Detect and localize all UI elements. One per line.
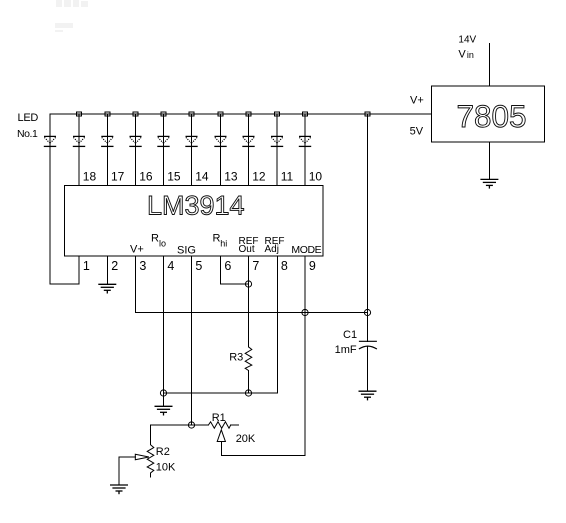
svg-text:in: in xyxy=(467,50,474,60)
junction circle: V+ bus / C1 column xyxy=(364,309,370,315)
svg-text:Adj: Adj xyxy=(265,244,279,255)
wire: R2 top lead xyxy=(150,425,152,445)
R1 wiper arrow xyxy=(217,430,225,442)
junction square: bus / D10 anode xyxy=(303,112,308,116)
junction square: bus / D3 anode xyxy=(105,112,110,116)
svg-text:1: 1 xyxy=(83,259,90,273)
resistor R1 zigzag xyxy=(208,422,230,428)
svg-text:2: 2 xyxy=(111,259,118,273)
R2 wiper arrow xyxy=(135,454,149,460)
faint watermark remnant top-left xyxy=(55,0,88,32)
LED D8 xyxy=(242,136,254,146)
resistor R3 zigzag xyxy=(245,347,252,371)
svg-text:5: 5 xyxy=(195,259,202,273)
wire: pin 5 down to R1/R2 node xyxy=(191,256,193,425)
ground (C1) xyxy=(359,391,377,400)
svg-text:R1: R1 xyxy=(212,412,226,424)
junction square: bus / D5 anode xyxy=(161,112,166,116)
wire: R3 bottom lead xyxy=(248,371,250,394)
svg-text:1mF: 1mF xyxy=(335,344,357,356)
ground (R2 wiper) xyxy=(110,485,128,494)
svg-text:V+: V+ xyxy=(410,94,424,106)
LED D5 xyxy=(157,136,169,146)
svg-text:12: 12 xyxy=(252,170,266,184)
wire: R1 wiper return xyxy=(221,442,305,456)
svg-text:R3: R3 xyxy=(229,352,243,364)
svg-text:R2: R2 xyxy=(156,446,170,458)
svg-text:3: 3 xyxy=(139,259,146,273)
svg-text:10K: 10K xyxy=(156,462,176,474)
wire: lower V+ bus xyxy=(136,312,368,314)
LED D1 (LED No.1) xyxy=(44,136,56,146)
junction square: bus / D9 anode xyxy=(275,112,280,116)
IC U1 LM3914 box xyxy=(65,185,324,256)
wire: pin 8 down to ground bus xyxy=(277,256,279,393)
svg-text:18: 18 xyxy=(83,170,97,184)
svg-text:7805: 7805 xyxy=(457,98,527,134)
junction circle: R3 bottom / ground bus xyxy=(245,390,251,396)
svg-text:11: 11 xyxy=(281,170,294,184)
svg-text:16: 16 xyxy=(139,170,153,184)
wire: R1/R2 node bus y425 xyxy=(151,424,209,426)
svg-text:13: 13 xyxy=(224,170,238,184)
svg-text:9: 9 xyxy=(309,259,316,273)
svg-text:6: 6 xyxy=(224,259,231,273)
wire: R1 right lead xyxy=(231,424,239,426)
wire: pin 7 down to R3 xyxy=(248,256,250,347)
wire: pin 2 to ground xyxy=(106,256,108,284)
wire: R2 wiper to ground xyxy=(119,457,135,485)
svg-text:V+: V+ xyxy=(130,244,144,256)
ground (pin 2) xyxy=(98,284,116,293)
junction circle: pin 9 MODE / V+ bus xyxy=(302,309,308,315)
wire: V+ column from bus to lower bus xyxy=(367,114,369,313)
junction square: bus / D2 anode xyxy=(77,112,82,116)
wire: pin 6 jog to pin 7 xyxy=(221,256,249,284)
wire: pin 9 MODE down xyxy=(304,256,306,456)
svg-text:10: 10 xyxy=(309,170,323,184)
wire: pin 4 ground stem xyxy=(163,393,165,406)
svg-text:MODE: MODE xyxy=(291,244,321,256)
wire: R2 bottom free lead xyxy=(150,473,152,477)
svg-text:14V: 14V xyxy=(458,35,476,46)
wire: LED anode V+ bus xyxy=(50,113,432,115)
svg-text:5V: 5V xyxy=(410,126,424,138)
svg-text:15: 15 xyxy=(167,170,181,184)
svg-text:hi: hi xyxy=(220,239,227,249)
svg-text:LM3914: LM3914 xyxy=(147,191,245,221)
svg-text:17: 17 xyxy=(111,170,125,184)
LED D7 xyxy=(214,136,226,146)
svg-text:lo: lo xyxy=(159,239,166,249)
LED D2 xyxy=(73,136,85,146)
LED D10 xyxy=(299,136,311,146)
wire: 7805 output to ground xyxy=(488,142,490,179)
LED D4 xyxy=(129,136,141,146)
junction circle: pin 5 SIG / R1-R2 node xyxy=(188,422,194,428)
wire: C1 bottom lead xyxy=(367,347,369,391)
svg-text:14: 14 xyxy=(195,170,209,184)
svg-text:Out: Out xyxy=(239,244,255,255)
regulator U2 7805 box xyxy=(432,86,545,142)
junction square: bus / D7 anode xyxy=(218,112,223,116)
capacitor C1 plates xyxy=(359,341,377,349)
svg-text:R: R xyxy=(151,233,159,245)
resistor R2 zigzag xyxy=(147,445,154,473)
junction square: bus / V+ takeoff xyxy=(365,112,370,116)
svg-text:20K: 20K xyxy=(236,433,256,445)
ground (7805 output) xyxy=(480,179,498,188)
junction square: bus / D4 anode xyxy=(133,112,138,116)
junction circle: pin 4 R_lo / ground bus xyxy=(160,390,166,396)
svg-text:C1: C1 xyxy=(343,329,357,341)
svg-text:8: 8 xyxy=(281,259,288,273)
LED D6 xyxy=(185,136,197,146)
svg-text:LED: LED xyxy=(18,112,39,124)
wire: pin 3 V+ down xyxy=(135,256,137,313)
junction circle: pin 6 / pin 7 (R_hi-REF Out) node xyxy=(245,281,251,287)
wire: pin 4 down to ground bus xyxy=(163,256,165,393)
LED D9 xyxy=(271,136,283,146)
wire: ground bus y393 xyxy=(164,392,278,394)
wires: LED columns bus-to-IC pins 18-10 xyxy=(79,114,305,185)
wire: C1 top lead xyxy=(367,313,369,342)
junction square: bus / D6 anode xyxy=(189,112,194,116)
LED D3 xyxy=(101,136,113,146)
svg-text:V: V xyxy=(458,49,466,61)
ground (R_lo bus) xyxy=(155,406,173,415)
junction square: bus / D8 anode xyxy=(246,112,251,116)
wire: 7805 input from 14V xyxy=(488,43,490,86)
svg-text:7: 7 xyxy=(252,259,259,273)
svg-text:4: 4 xyxy=(167,259,174,273)
svg-text:No.1: No.1 xyxy=(17,128,38,140)
wire: LED No.1 column down to pin-1 jog xyxy=(50,114,79,284)
svg-text:SIG: SIG xyxy=(177,245,196,257)
